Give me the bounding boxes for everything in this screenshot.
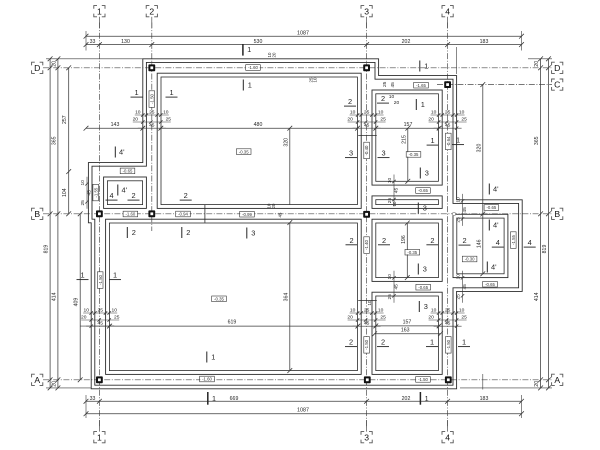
grid axis B (horizontal dash-dot) [43, 213, 552, 215]
svg-text:414: 414 [51, 292, 57, 301]
svg-text:530: 530 [254, 39, 263, 45]
svg-text:2: 2 [132, 228, 136, 237]
axis marker C right [552, 79, 563, 90]
axis marker A right [552, 374, 563, 385]
svg-text:819: 819 [542, 245, 548, 254]
svg-text:20: 20 [133, 116, 139, 122]
interior dim 364 room 6 vertical [283, 220, 292, 373]
level marker -1.55 in left annex west wall [93, 184, 99, 201]
level marker -1.50 wall A right [416, 377, 431, 383]
svg-text:10: 10 [83, 307, 89, 313]
left dim line 409 [74, 211, 83, 382]
svg-text:10: 10 [387, 274, 393, 280]
left dim line 20/365/414/20 [51, 56, 60, 390]
top segment dimension line 33/130/530/202/183 [84, 39, 524, 47]
svg-text:-1.50: -1.50 [446, 339, 451, 349]
level marker -0.35 room 4 [405, 249, 420, 255]
svg-text:10: 10 [431, 109, 437, 115]
dim chain wall 283 [387, 271, 400, 303]
axis marker 4 bottom [442, 420, 453, 443]
level marker -0.65 right annex south [483, 281, 498, 287]
svg-text:3: 3 [364, 432, 369, 442]
svg-text:45: 45 [394, 284, 400, 290]
axis marker 1 top [94, 6, 105, 28]
svg-text:1: 1 [456, 136, 460, 145]
axis marker 2 top [146, 6, 157, 28]
element tag 3 at (424,208) [418, 203, 427, 214]
svg-text:-1.40: -1.40 [364, 239, 369, 249]
svg-text:10: 10 [111, 307, 117, 313]
grid axis A (horizontal dash-dot) [43, 379, 552, 381]
interior dim 157 room 2 [373, 122, 441, 130]
svg-text:130: 130 [121, 39, 130, 45]
level marker -0.65 right annex north [484, 205, 499, 211]
svg-text:-0.35: -0.35 [239, 149, 249, 154]
level marker -0.94 wall B [176, 211, 191, 217]
footing cross line wall 3 upper [358, 135, 377, 137]
svg-text:-1.55: -1.55 [511, 234, 516, 244]
interior dim 196 room 4 vertical [401, 221, 410, 280]
svg-text:1: 1 [462, 338, 466, 347]
level marker -0.35 room 2 [406, 152, 421, 158]
svg-text:1: 1 [113, 271, 117, 280]
axis marker B right [552, 208, 563, 219]
svg-text:1: 1 [421, 100, 425, 109]
level marker -0.99 wall B mid [240, 211, 255, 217]
svg-text:414: 414 [534, 292, 540, 301]
top overall dimension line 1087 [84, 31, 524, 39]
svg-text:25: 25 [166, 116, 172, 122]
svg-text:25: 25 [80, 200, 86, 206]
svg-text:4: 4 [496, 238, 500, 247]
element tag 4' at (493,267) [487, 262, 497, 273]
level marker -1.50 in wall axis3 lower [364, 337, 370, 354]
svg-text:1: 1 [430, 338, 434, 347]
svg-text:3: 3 [364, 6, 369, 16]
dim chain wall axis3 bottom [347, 307, 386, 328]
svg-text:183: 183 [480, 396, 489, 402]
svg-text:-0.35: -0.35 [409, 152, 419, 157]
left overall dim line 819 [44, 56, 53, 390]
element tag 4' at (495,189) [489, 184, 499, 195]
svg-text:25: 25 [456, 217, 462, 223]
footing tag 2 at (186,196) [180, 191, 192, 200]
axis marker 3 bottom [361, 420, 372, 443]
svg-text:20: 20 [81, 314, 87, 320]
svg-text:2: 2 [381, 94, 385, 103]
footing tag 1 at (82,275) [77, 271, 89, 280]
svg-text:10: 10 [456, 274, 462, 280]
level marker -0.64 in wall axis4 upper [446, 133, 452, 150]
section tick 1 bottom-left [208, 392, 216, 405]
svg-text:10: 10 [135, 109, 141, 115]
svg-text:10: 10 [389, 94, 395, 100]
right dim extension line bottom [460, 387, 552, 389]
left dim extension line top [46, 58, 143, 60]
svg-text:1: 1 [97, 432, 102, 442]
top dim extension line left [85, 31, 87, 51]
element tag 4' at (495,225) [489, 220, 499, 231]
svg-text:104: 104 [62, 188, 68, 197]
footing tag 1 at (172,92) [166, 88, 178, 97]
outer footing edge of building perimeter [88, 59, 522, 389]
svg-text:10: 10 [313, 77, 318, 82]
pier at axis 1/B [96, 210, 103, 217]
svg-text:-0.65: -0.65 [485, 282, 495, 287]
element tag 3 at (425,306) [419, 301, 428, 312]
svg-text:1: 1 [80, 271, 84, 280]
svg-text:-0.65: -0.65 [487, 205, 497, 210]
svg-text:-1.50: -1.50 [418, 377, 428, 382]
level marker -1.50 in wall axis2 [149, 91, 155, 108]
level marker -1.65 wall C [414, 82, 429, 88]
dim chain wall axis4 top [428, 109, 467, 129]
svg-text:10: 10 [456, 197, 462, 203]
left dim extension line bottom [46, 387, 91, 389]
svg-text:20: 20 [534, 61, 540, 67]
bottom overall dimension line 1087 [84, 407, 524, 416]
svg-text:4': 4' [119, 148, 125, 157]
room 7 left annex footing inner edge [107, 181, 142, 205]
pier at axis 2/B [148, 210, 155, 217]
svg-text:202: 202 [402, 39, 411, 45]
room 4 mid-right footing inner edge [376, 223, 439, 278]
svg-text:1087: 1087 [297, 407, 309, 413]
svg-text:25: 25 [461, 314, 467, 320]
svg-text:143: 143 [111, 122, 120, 128]
svg-text:A: A [554, 375, 560, 385]
svg-text:25: 25 [114, 314, 120, 320]
svg-text:365: 365 [51, 136, 57, 145]
svg-text:480: 480 [254, 122, 263, 128]
pier at axis 3/A [364, 376, 371, 383]
svg-text:3: 3 [424, 302, 428, 311]
right dim line 20/365/414/20 [534, 56, 543, 390]
pier at axis 4/C [444, 81, 451, 88]
svg-text:1: 1 [212, 394, 216, 403]
svg-text:A: A [34, 375, 40, 385]
svg-text:-1.60: -1.60 [126, 212, 136, 217]
room 7 left annex wall inner edge [104, 177, 147, 208]
dim chain step wall top [382, 81, 399, 106]
axis marker 1 bottom [94, 420, 105, 443]
level marker -0.65 annex north [120, 168, 135, 174]
footing tag 1 at (458,140) [452, 136, 464, 145]
room 5 bottom-right wall inner edge [372, 292, 442, 374]
svg-text:409: 409 [74, 298, 80, 307]
interior dim 215 room 2 vertical [402, 126, 411, 184]
svg-text:10: 10 [392, 201, 397, 206]
svg-text:2: 2 [349, 236, 353, 245]
svg-text:-1.55: -1.55 [93, 187, 98, 197]
svg-text:25: 25 [445, 109, 451, 115]
level marker -0.35 room 6 [212, 296, 227, 302]
svg-text:3: 3 [423, 265, 427, 274]
svg-text:-0.65: -0.65 [418, 188, 428, 193]
svg-text:257: 257 [62, 115, 68, 124]
svg-text:1: 1 [248, 81, 252, 90]
svg-text:1: 1 [424, 62, 428, 71]
element tag 4' at (121,152) [115, 147, 125, 158]
svg-text:-1.50: -1.50 [149, 93, 154, 103]
svg-text:4': 4' [493, 185, 499, 194]
svg-text:45: 45 [394, 188, 400, 194]
small chain text near top dim [267, 52, 277, 57]
grid axis 2 (vertical dash-dot) [151, 23, 153, 232]
svg-text:1: 1 [134, 88, 138, 97]
room 2 top-right footing inner edge [376, 94, 439, 182]
pier at axis 3/D [363, 64, 370, 71]
svg-text:4': 4' [122, 186, 128, 195]
svg-text:25: 25 [364, 307, 370, 313]
svg-text:25: 25 [456, 294, 462, 300]
svg-text:20: 20 [534, 381, 540, 387]
element tag 3 at (426,173) [420, 168, 429, 179]
extension line NE corner [456, 47, 458, 74]
svg-text:3: 3 [251, 229, 255, 238]
svg-text:-1.65: -1.65 [416, 83, 426, 88]
footing cross line wall 3 lower [358, 300, 377, 302]
axis marker D left [32, 62, 43, 73]
footing tag 4 at (112,196) [106, 191, 118, 200]
svg-text:25: 25 [149, 109, 155, 115]
svg-text:2: 2 [349, 338, 353, 347]
room 3 small mid-right footing inner edge [376, 200, 439, 205]
svg-text:3: 3 [349, 149, 353, 158]
svg-text:3: 3 [425, 169, 429, 178]
footing tag 2 at (352,240) [346, 236, 358, 245]
svg-text:B: B [554, 209, 560, 219]
svg-text:45: 45 [278, 212, 283, 217]
level marker -0.30 room 8 [462, 256, 477, 262]
svg-text:-0.65: -0.65 [123, 169, 133, 174]
footing tag 3 at (351,153) [345, 149, 357, 158]
svg-text:1: 1 [247, 45, 251, 54]
svg-text:D: D [34, 63, 40, 73]
svg-text:10: 10 [350, 307, 356, 313]
footing tag 1 at (464,342) [458, 338, 470, 347]
axis marker A left [32, 374, 43, 385]
svg-text:33: 33 [90, 39, 96, 45]
svg-text:320: 320 [476, 144, 482, 153]
dim chain wall axis2 top [133, 109, 172, 129]
svg-text:-1.60: -1.60 [248, 65, 258, 70]
footing tag 2 at (383,98) [377, 94, 389, 103]
svg-text:-0.99: -0.99 [242, 212, 252, 217]
dim chain wall B left annex [80, 177, 93, 209]
element tag 2 at (188,232) [182, 227, 191, 238]
svg-text:10: 10 [367, 300, 372, 305]
level marker -1.40 in wall axis3 middle [364, 237, 370, 254]
element tag 1 at (249,85) [243, 80, 252, 91]
level marker -1.50 in wall axis4 lower [446, 337, 452, 354]
svg-text:157: 157 [404, 122, 413, 128]
svg-text:10: 10 [350, 109, 356, 115]
svg-text:45: 45 [462, 207, 468, 213]
svg-text:C: C [554, 80, 560, 90]
bottom segment dimension line 33/669/202/183 [84, 396, 524, 404]
level marker -1.60 wall B annex [123, 211, 138, 217]
svg-text:4': 4' [493, 221, 499, 230]
svg-text:2: 2 [382, 236, 386, 245]
svg-text:320: 320 [283, 138, 289, 147]
top dim extension line right [521, 31, 523, 51]
svg-text:2: 2 [430, 236, 434, 245]
room 4 mid-right wall inner edge [372, 219, 442, 281]
room 1 top-left large footing inner edge [161, 77, 357, 205]
dim chain wall axis4 bottom [428, 307, 467, 328]
svg-text:-0.40: -0.40 [364, 145, 369, 155]
extension stub right annex dim [482, 374, 484, 390]
svg-text:20: 20 [271, 203, 276, 208]
svg-text:202: 202 [402, 396, 411, 402]
svg-text:2: 2 [186, 228, 190, 237]
level marker -1.55 in right annex east wall [511, 232, 517, 249]
footing tag 2 at (134,196) [128, 191, 140, 200]
right overall dim line 819 [542, 56, 551, 390]
svg-text:4: 4 [445, 432, 450, 442]
interior dim 163 room 5 [372, 328, 443, 337]
svg-text:B: B [34, 209, 40, 219]
svg-text:-1.50: -1.50 [364, 339, 369, 349]
svg-text:669: 669 [230, 396, 239, 402]
svg-text:D: D [554, 63, 560, 73]
outer wall edge of building perimeter [92, 62, 519, 385]
svg-text:10: 10 [431, 307, 437, 313]
svg-text:1: 1 [425, 394, 429, 403]
room 8 right annex wall inner edge [453, 214, 508, 277]
level marker -0.40 in wall axis3 upper [364, 142, 370, 159]
svg-text:20: 20 [347, 116, 353, 122]
footing tag 2 at (432,240) [426, 236, 438, 245]
footing tag 1 at (433,140) [427, 136, 439, 145]
svg-text:2: 2 [184, 191, 188, 200]
room 6 bottom-left large wall inner edge [106, 219, 362, 374]
svg-text:2: 2 [149, 6, 154, 16]
axis marker B left [32, 208, 43, 219]
interior dim 619 room 6 [107, 320, 360, 329]
element tag 1 at (422,104) [416, 99, 425, 110]
svg-text:45: 45 [87, 190, 93, 196]
dim chain wall 188 [387, 175, 400, 207]
svg-text:25: 25 [461, 116, 467, 122]
svg-text:-1.50: -1.50 [98, 274, 103, 284]
svg-text:25: 25 [380, 314, 386, 320]
svg-text:10: 10 [459, 307, 465, 313]
level marker -0.35 room 1 [236, 149, 251, 155]
svg-text:20: 20 [347, 314, 353, 320]
axis marker D right [552, 62, 563, 73]
footing tag 4 at (498,242) [492, 238, 504, 247]
svg-text:619: 619 [228, 320, 237, 326]
grid axis D (horizontal dash-dot) [43, 67, 552, 69]
pier at axis 3/B [363, 211, 370, 218]
level marker -1.60 north wall [246, 65, 261, 71]
footing tag 1 at (136,92) [131, 88, 143, 97]
svg-text:45: 45 [390, 82, 396, 88]
svg-text:25: 25 [387, 294, 393, 300]
small chain texts wall B mid [267, 203, 283, 217]
element tag 3 at (424,269) [418, 264, 427, 275]
room 2 top-right wall inner edge [372, 90, 442, 185]
interior dim 480 room 1 [158, 122, 360, 130]
section tick 1 on top dim [243, 44, 251, 56]
svg-text:1: 1 [97, 6, 102, 16]
svg-text:20: 20 [428, 116, 434, 122]
svg-text:157: 157 [403, 320, 412, 326]
svg-text:25: 25 [364, 109, 370, 115]
svg-text:2: 2 [381, 338, 385, 347]
room 8 right annex footing inner edge [457, 218, 504, 274]
svg-text:10: 10 [378, 109, 384, 115]
svg-text:10: 10 [163, 109, 169, 115]
footing tag 3 at (384,153) [378, 149, 390, 158]
bottom dim extension line left [85, 395, 87, 418]
svg-text:10: 10 [378, 307, 384, 313]
pier small at annex west/B [452, 212, 455, 215]
dim chain wall axis3 top [347, 109, 386, 129]
svg-text:4: 4 [528, 238, 532, 247]
svg-text:4': 4' [491, 263, 497, 272]
svg-text:-0.35: -0.35 [407, 250, 417, 255]
footing tag 4 at (530,242) [524, 238, 536, 247]
element tag 4' at (124,190) [118, 185, 128, 196]
room 1 top-left large wall inner edge [157, 73, 361, 208]
footing tag 2 at (351,342) [345, 338, 357, 347]
dim chain right annex south wall [456, 271, 469, 303]
bottom dim extension line right [521, 395, 523, 418]
axis marker 4 top [442, 6, 453, 28]
axis marker 3 top [361, 6, 372, 28]
svg-text:33: 33 [90, 396, 96, 402]
dim extension 45-row left of wall1 [80, 325, 114, 327]
svg-text:20: 20 [394, 100, 400, 106]
interior dim 157 room 5 [373, 320, 441, 329]
footing tag 1 at (115,275) [109, 271, 121, 280]
svg-text:-0.64: -0.64 [446, 136, 451, 146]
svg-text:2: 2 [348, 97, 352, 106]
svg-text:1087: 1087 [297, 31, 309, 37]
interior dim 143 left of wall 2 [84, 122, 146, 130]
level marker -0.65 wall 188 [416, 188, 431, 194]
footing tag 2 at (464,240) [459, 236, 471, 245]
svg-text:10: 10 [459, 109, 465, 115]
svg-text:20: 20 [51, 61, 57, 67]
pier at axis 2/D [148, 64, 155, 71]
footing tag 2 at (383,342) [377, 338, 389, 347]
svg-text:10: 10 [387, 178, 393, 184]
room 5 bottom-right footing inner edge [376, 296, 439, 371]
dim chain wall axis1 bottom [81, 307, 120, 328]
svg-text:20: 20 [272, 52, 277, 57]
svg-text:-0.30: -0.30 [465, 257, 475, 262]
small dim 25/10 on north wall [309, 77, 318, 82]
svg-text:10: 10 [80, 180, 86, 186]
svg-text:25: 25 [445, 307, 451, 313]
element tag 3 at (252,233) [247, 228, 256, 239]
svg-text:25: 25 [382, 81, 388, 87]
svg-text:3: 3 [423, 204, 427, 213]
grid axis C (horizontal dash-dot) [437, 84, 552, 86]
svg-text:2: 2 [131, 191, 135, 200]
svg-text:196: 196 [401, 235, 407, 244]
svg-text:25: 25 [97, 307, 103, 313]
footing tag 1 at (432,342) [426, 338, 438, 347]
svg-text:20: 20 [51, 381, 57, 387]
level marker -0.65 wall 283 [416, 284, 431, 290]
level marker -1.50 in wall axis1 [97, 272, 103, 289]
section tick 1 bottom-right [420, 392, 428, 405]
